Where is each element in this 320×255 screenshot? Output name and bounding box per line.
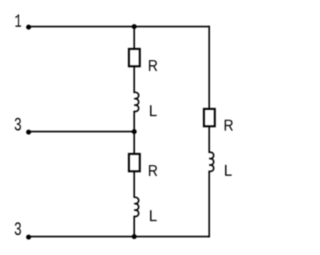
label L1	[150, 105, 157, 116]
terminal label 1	[15, 14, 21, 26]
node dot terminal 3 middle	[26, 130, 31, 135]
wire middle branch seg5	[133, 217, 135, 237]
wire middle branch seg2	[133, 67, 135, 93]
label L3	[225, 165, 232, 176]
wire bottom rail	[29, 236, 210, 238]
inductor L3 (right)	[209, 152, 214, 171]
wire top rail	[29, 26, 210, 28]
terminal label 3 (bottom)	[15, 222, 21, 235]
label R1	[149, 60, 157, 71]
wire right branch upper	[208, 27, 210, 109]
inductor L2 (middle lower)	[134, 197, 139, 216]
label R3	[225, 120, 233, 131]
label L2	[150, 210, 157, 221]
resistor R3 (right)	[204, 109, 215, 126]
node dot terminal 3 bottom	[26, 235, 31, 240]
label R2	[149, 165, 157, 176]
inductor L1 (middle upper)	[134, 92, 139, 111]
wire middle branch seg1	[133, 27, 135, 49]
wire right branch middle	[208, 127, 210, 152]
junction dot bottom	[132, 234, 137, 239]
terminal label 3 (middle)	[15, 118, 21, 131]
wire middle-left from terminal 3	[29, 131, 135, 133]
wire middle branch seg4	[133, 172, 135, 197]
wire right branch lower	[208, 171, 210, 236]
junction dot middle	[132, 129, 137, 134]
junction dot top	[132, 24, 137, 29]
resistor R1 (middle upper)	[129, 49, 140, 66]
node dot terminal 1	[26, 25, 31, 30]
resistor R2 (middle lower)	[129, 154, 140, 171]
wire middle branch seg3	[133, 112, 135, 154]
